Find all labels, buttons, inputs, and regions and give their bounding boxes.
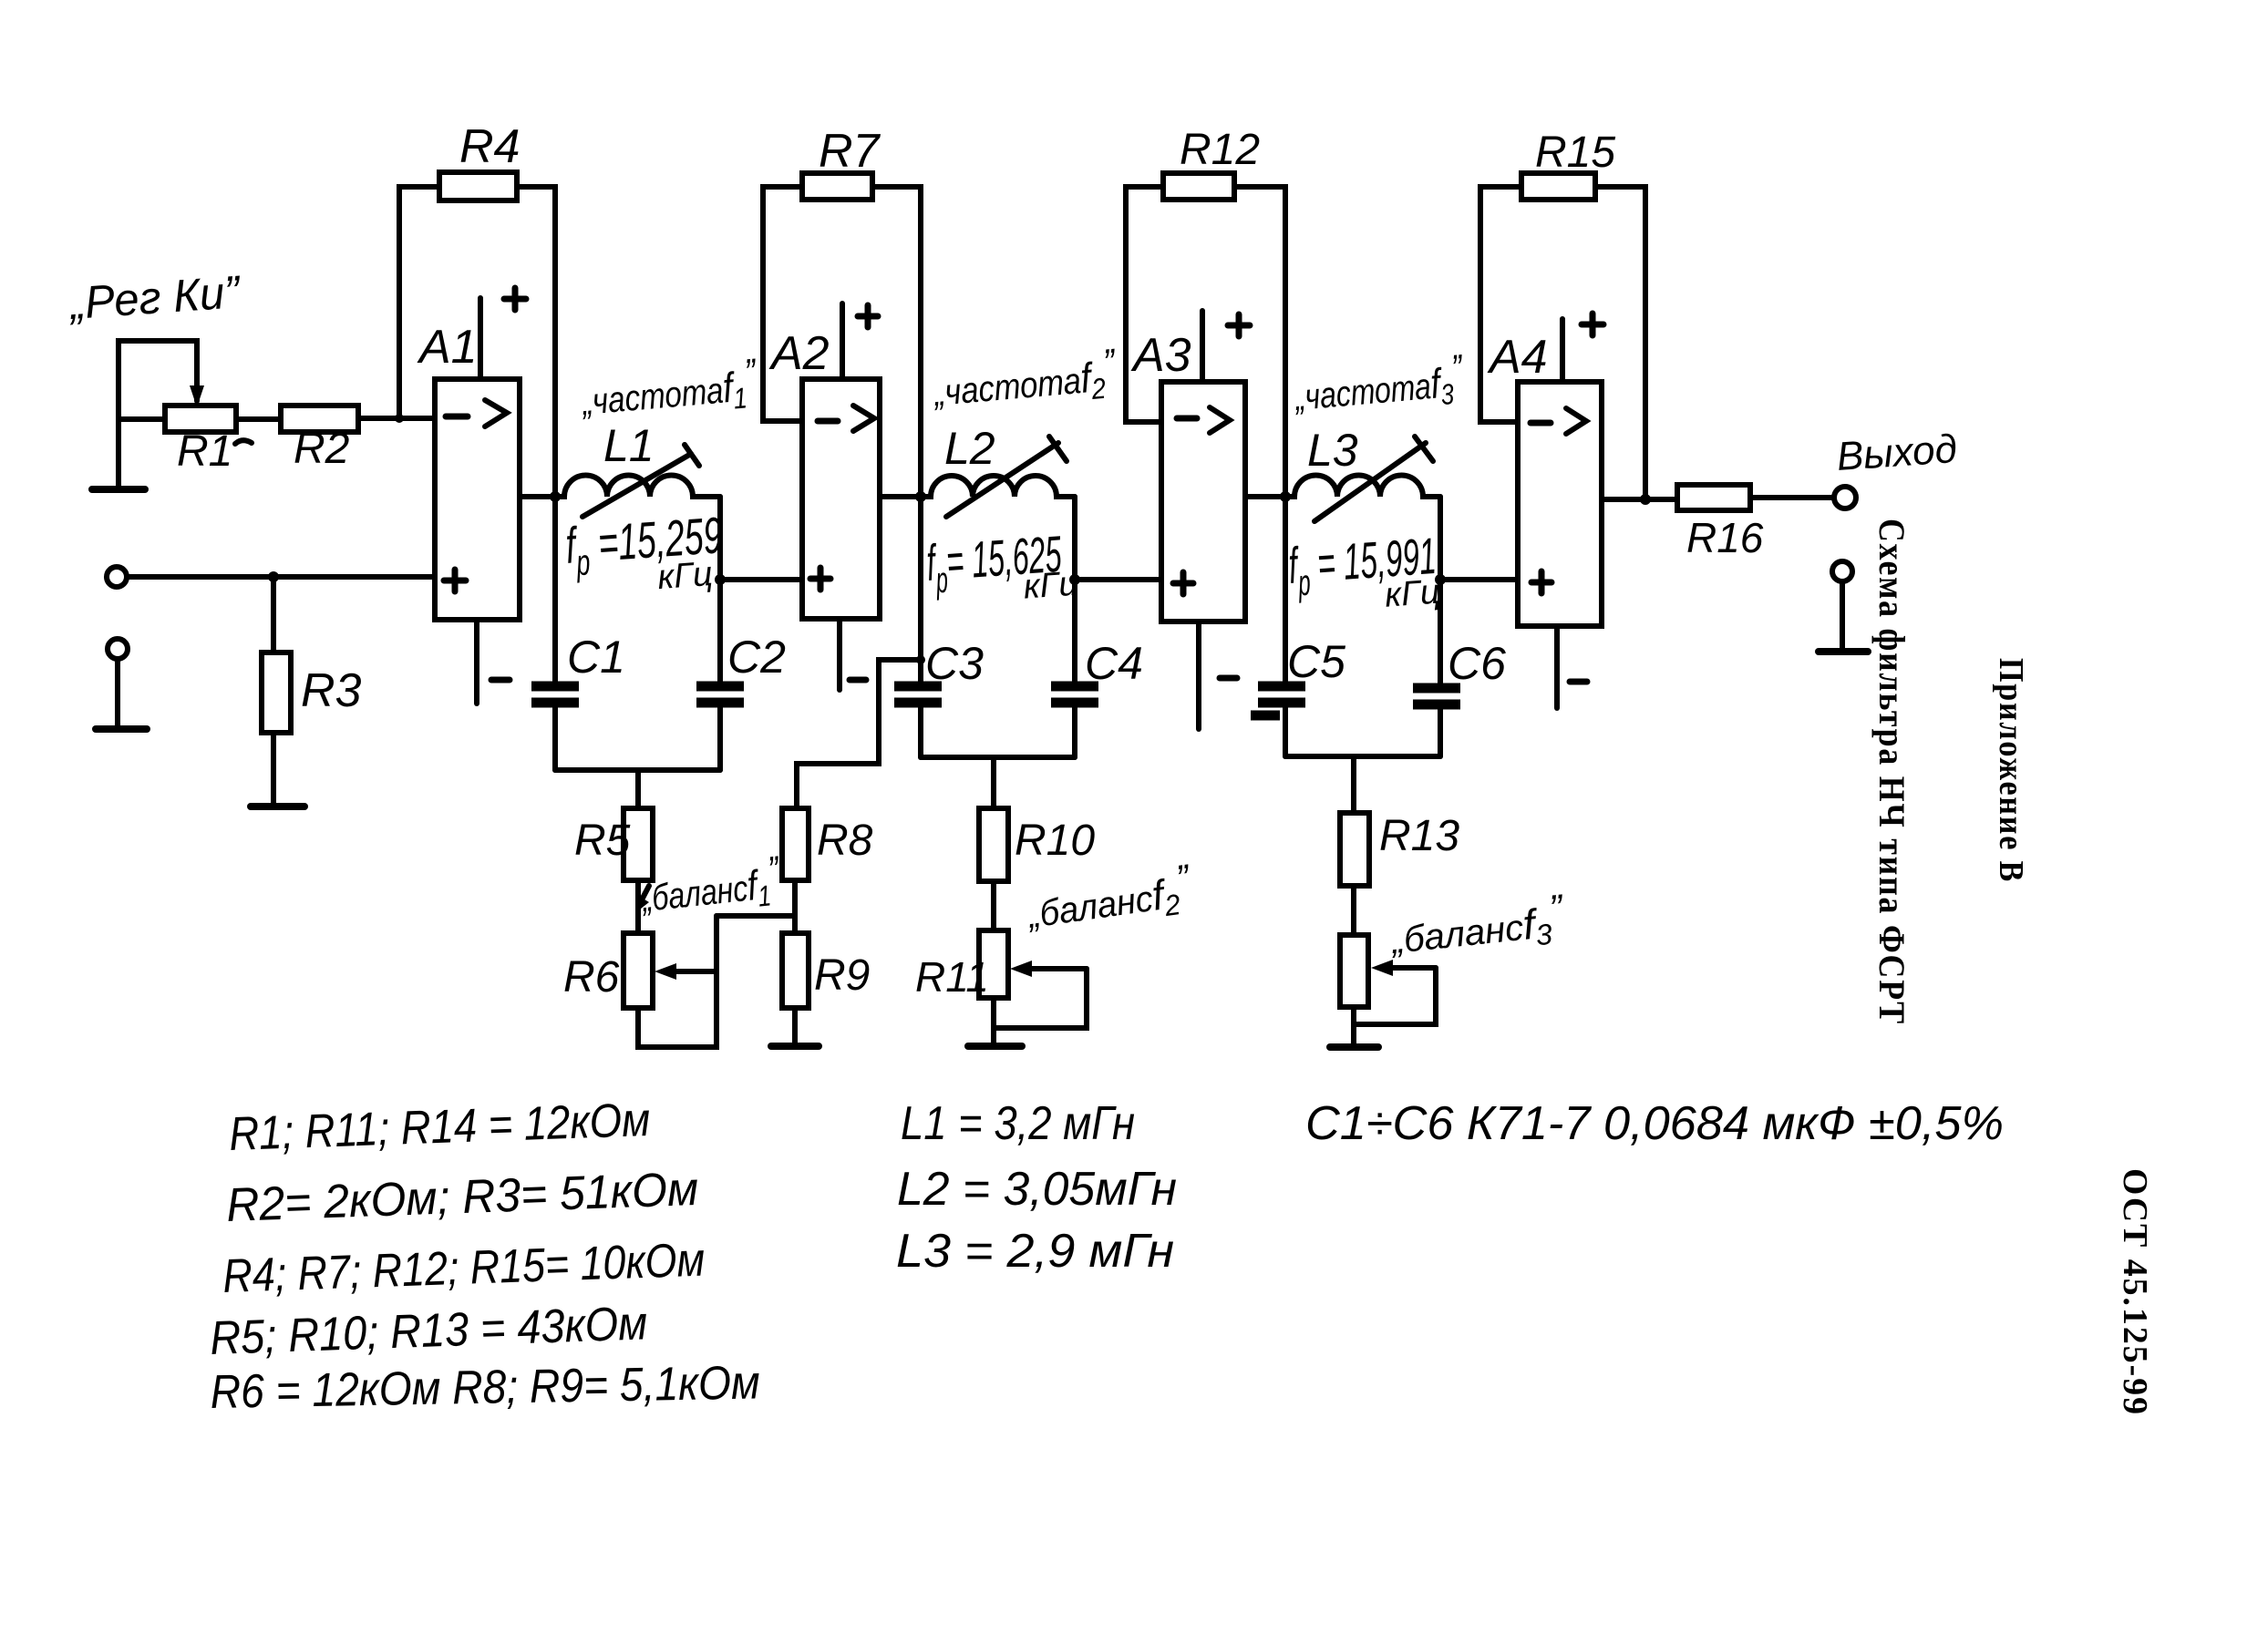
A2 plus supply label [858,305,878,327]
svg-text:R9: R9 [814,951,870,1000]
wire: pot3 wiper return loop [1356,968,1436,1024]
wire: R7 left leg down to inverting input [763,187,802,421]
svg-text:C1: C1 [567,632,625,683]
label fp = 15,625 [924,524,1079,613]
wire: A4 output to R16 [1602,497,1677,502]
L3 variable arrow [1314,443,1426,521]
svg-text:R5: R5 [574,817,631,865]
A1 minus supply label [491,677,510,683]
node: stage1 tap to A2 [715,574,726,585]
ground (output) [1819,648,1868,655]
wire: A3 output [1245,494,1285,499]
wire: loop to R1 left [119,416,165,422]
resistor R2 [281,406,358,432]
wire: C3 bottom to rail [918,703,923,757]
wire: pot3 bottom to ground [1351,1007,1356,1046]
svg-text:R1: R1 [177,427,232,476]
inductor L2 [921,476,1075,497]
A2 minus supply label [850,677,866,683]
A4 minus supply label [1570,679,1587,685]
op-amp A1 [435,379,520,620]
resistor R7 [802,173,872,200]
svg-text:L1: L1 [603,420,655,471]
resistor R13 [1340,813,1369,886]
svg-text:R15: R15 [1535,128,1615,177]
inductor L3 [1285,476,1440,498]
pot3 wiper arrow [1382,965,1436,971]
wire: R10 to R11 [991,881,996,930]
wire: rail3 down to R13 [1351,756,1356,813]
A2 negative supply stub [837,619,842,690]
wire: C5 bottom to rail [1283,703,1288,756]
A3 positive supply stub [1200,311,1205,382]
wire: R2 to A1 inverting input [358,416,435,421]
R11 wiper arrow [1021,966,1087,971]
arrow onto R1 wiper [190,385,204,407]
svg-text:R12: R12 [1180,126,1260,174]
svg-text:Выход: Выход [1835,426,1958,479]
label "Рег Ки" [67,266,243,329]
wire: R6 bottom loop to balance line [638,916,716,1047]
capacitor C4 [1051,686,1098,703]
node: A1 output / feedback [550,491,561,502]
A1 positive supply stub [478,298,483,379]
wire: R16 to output terminal [1750,495,1834,500]
A2 plus input mark [810,568,830,590]
svg-text:R10: R10 [1015,817,1095,865]
node: A3 output / feedback [1280,491,1291,502]
node: A4 output / feedback [1640,494,1651,505]
svg-text:C2: C2 [727,632,786,683]
wire: R7 right leg down through output node [872,187,921,686]
resistor R10 [979,808,1008,881]
wire: R8 riser to tank2 left leg [797,660,921,808]
svg-text:C5: C5 [1287,636,1345,687]
svg-text:R11: R11 [915,953,989,1001]
svg-text:A4: A4 [1487,331,1548,384]
A4 positive supply stub [1560,319,1565,382]
svg-text:R13: R13 [1379,812,1459,860]
wire: R11 wiper return loop [994,969,1087,1028]
label "баланс f3" [1386,886,1568,967]
wire: C2 bottom to rail [717,703,723,770]
resistor R16 [1677,485,1750,510]
svg-text:A1: A1 [417,321,478,374]
capacitor C5 [1258,686,1305,703]
wire: tank1 right leg (L1 to C2) [717,497,723,686]
A3 minus input mark [1177,416,1197,422]
wire: A2 output [880,494,921,499]
A2 minus input mark [818,418,838,425]
svg-text:L3: L3 [1307,425,1358,476]
A3 chevron [1210,407,1230,433]
wire: R4 right leg down through output node [517,187,555,686]
label fp = 15,991 [1286,527,1440,622]
A1 negative supply stub [474,620,479,704]
arrow: balance f1 pointer [638,886,649,907]
A1 plus supply label [504,288,526,310]
svg-text:Приложение В: Приложение В [1992,658,2030,883]
wire: rail2 down to R10 [991,757,996,808]
svg-text:L1 = 3,2 мГн: L1 = 3,2 мГн [901,1097,1135,1150]
svg-text:A3: A3 [1130,329,1191,382]
capacitor C2 [696,686,744,703]
svg-text:C6: C6 [1448,638,1506,689]
svg-text:A2: A2 [768,327,830,380]
svg-text:R8: R8 [817,817,873,865]
A1 minus input mark [446,414,468,420]
lower input terminal circle [108,639,128,659]
L1 variable arrow [582,454,691,517]
A4 plus supply label [1582,313,1603,335]
node: stage2 tap to A3 [1069,574,1080,585]
A2 positive supply stub [840,303,845,379]
wire: tap to A2 non-inverting input [720,577,802,582]
R6 wiper arrow [665,969,716,974]
lower output terminal circle [1832,561,1852,581]
svg-text:C3: C3 [925,638,984,689]
ground (R11) [968,1043,1022,1050]
svg-text:R7: R7 [819,125,881,178]
svg-text:R2: R2 [294,425,349,473]
A1 plus input mark [444,570,466,591]
svg-text:L3 = 2,9 мГн: L3 = 2,9 мГн [896,1225,1174,1278]
wire: input to A1 non-inverting input [127,574,435,580]
wire: R3 to ground [271,733,276,806]
node: stage3 tap to A4 [1435,574,1446,585]
wire: C1 bottom to rail [552,703,558,770]
potentiometer R6 [624,933,653,1008]
node: A2 output / feedback [915,491,926,502]
svg-text:R6 = 12кОм R8; R9= 5,1кОм: R6 = 12кОм R8; R9= 5,1кОм [210,1356,760,1419]
resistor R9 [782,933,809,1008]
capacitor C6 [1413,688,1460,704]
node: R4 left leg junction [395,414,404,423]
svg-text:R6: R6 [563,953,620,1002]
svg-text:кГц: кГц [1384,573,1441,615]
label "частота f2" [930,341,1120,419]
wire: tank3 right leg (L3 to C6) [1438,497,1443,688]
A3 negative supply stub [1196,622,1201,729]
wire: R11 bottom to ground [991,998,996,1046]
L2 variable arrow [946,443,1058,517]
output terminal circle [1834,487,1856,509]
resistor R12 [1163,173,1234,200]
wire: R15 left leg down to inverting input [1480,187,1521,422]
potentiometer (баланс f3) [1340,935,1368,1007]
wire: rail1 down to R5 [635,770,641,808]
svg-text:R4: R4 [459,120,520,173]
wire: tank1 bottom rail [555,767,720,773]
tilde mark after R1 [235,440,252,444]
resistor R3 [262,652,291,733]
capacitor C1 [531,686,579,703]
svg-text:ОСТ 45.125-99: ОСТ 45.125-99 [2116,1168,2154,1416]
svg-text:L2: L2 [944,423,995,474]
A4 chevron [1566,408,1586,434]
A3 plus input mark [1173,572,1193,594]
svg-text:R16: R16 [1686,514,1764,561]
wire: lower output terminal to ground [1840,581,1845,651]
wire: C4 bottom to rail [1072,703,1077,757]
wire: R12 left leg down to inverting input [1126,187,1163,422]
label "баланс f2" [1022,856,1197,941]
A3 minus supply label [1220,675,1237,682]
resistor R8 [782,808,809,880]
svg-text:кГц: кГц [1022,565,1079,607]
node: R3 junction [268,571,279,582]
wire: R8 to R9 [792,880,798,933]
input terminal circle [107,567,127,587]
wire: R1 to R2 [236,416,281,422]
wire: Рег Ки loop (left vertical + top horizontal) [119,341,197,489]
label "баланс f1" [637,848,785,925]
resistor R5 [624,808,653,880]
wire: C6 bottom to rail [1438,704,1443,756]
svg-text:кГц: кГц [656,555,714,597]
capacitor C3 [894,686,942,703]
svg-text:C1÷C6 К71-7 0,0684 мкФ ±0,5: C1÷C6 К71-7 0,0684 мкФ ±0,5% [1305,1097,2004,1150]
ground (lower input terminal) [96,725,147,733]
ground (баланс f3 pot) [1330,1043,1378,1051]
potentiometer R11 [979,930,1008,998]
A3 plus supply label [1228,314,1250,336]
svg-text:Схема фильтра НЧ типа ФСРТ: Схема фильтра НЧ типа ФСРТ [1871,519,1912,1025]
wire: A1 output [520,494,555,499]
A1 chevron [485,400,507,426]
op-amp A3 [1161,382,1245,622]
wire: R5 to R6 [635,880,641,933]
wire: tap to A3 non-inverting input [1075,577,1161,582]
wire: tap to A4 non-inverting input [1440,577,1518,582]
svg-text:C4: C4 [1085,638,1143,689]
A2 chevron [853,406,874,431]
wire: R9 to ground [792,1008,798,1046]
svg-text:L2 = 3,05мГн: L2 = 3,05мГн [897,1163,1177,1216]
op-amp A2 [802,379,880,619]
A4 negative supply stub [1554,626,1560,708]
potentiometer R1 [165,406,236,432]
ground (Рег Ки loop) [92,486,145,493]
ground (R9) [771,1043,819,1050]
wire: tank3 bottom rail [1285,754,1440,759]
label fp = 15,259 [563,506,726,603]
A4 plus input mark [1531,571,1552,593]
wire: lower terminal to ground [115,659,120,728]
wire: balance f1 line to R8/R9 junction [716,913,795,919]
resistor R4 [439,172,517,200]
inductor L1 [555,476,720,498]
resistor R15 [1521,173,1595,200]
ground (R3) [251,803,304,810]
A4 minus input mark [1531,420,1551,426]
wire: tank2 right leg (L2 to C4) [1072,497,1077,686]
wire: R12 right leg down through output node [1234,187,1285,686]
wire: R15 right leg down to output node [1595,187,1645,499]
wire: R13 to balance pot [1351,886,1356,935]
wire: junction down to R3 [271,577,276,652]
label "частота f3" [1291,346,1467,424]
op-amp A4 [1518,382,1602,626]
wire: tank2 bottom rail [921,755,1075,760]
label "частота f1" [578,350,761,428]
wire: R4 left leg down to inverting input [399,187,439,418]
svg-text:R3: R3 [301,664,362,717]
